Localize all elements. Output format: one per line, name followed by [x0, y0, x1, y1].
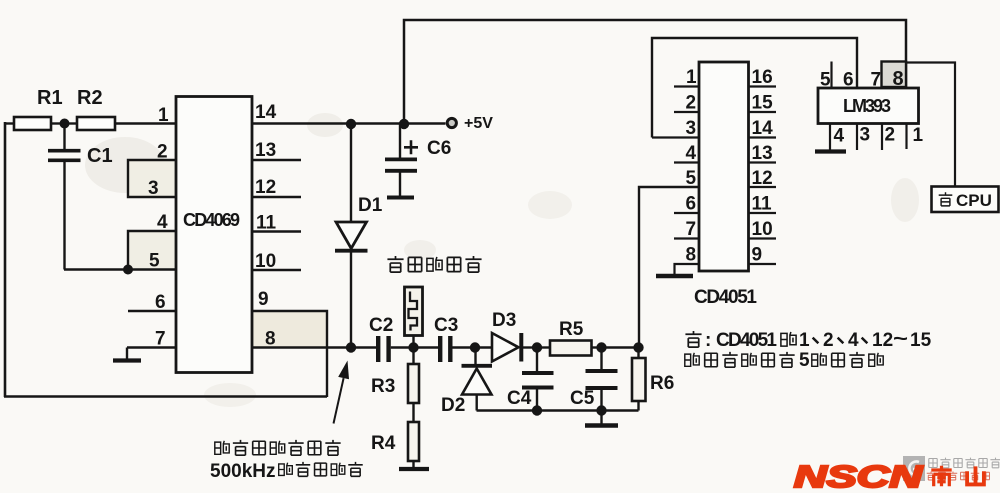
wire R1 to node	[51, 122, 64, 124]
label C6	[427, 138, 451, 159]
svg-text:2: 2	[157, 142, 168, 163]
capacitor C5	[586, 348, 618, 411]
CD4051 pin 16 label	[752, 67, 773, 88]
svg-text:C6: C6	[427, 138, 451, 159]
svg-text:2: 2	[686, 93, 697, 114]
pin 1 label	[158, 105, 169, 126]
CD4051 pin 3 label	[686, 118, 697, 139]
wire CD4051 pin5 to R6 node	[639, 187, 699, 348]
watermark red text row	[927, 472, 990, 481]
wire CD4051 pin9	[749, 263, 777, 265]
svg-text:5: 5	[799, 350, 810, 371]
diode D1	[335, 124, 368, 348]
diode D2	[462, 348, 493, 411]
label C1	[87, 145, 113, 167]
capacitor C4	[522, 348, 554, 411]
node C4/R5 junction	[532, 342, 542, 352]
CD4051 pin 7 label	[686, 219, 697, 240]
CD4051 pin 14 label	[752, 118, 774, 139]
node C5 bottom	[596, 405, 606, 415]
svg-text:1: 1	[799, 330, 810, 351]
op-amp U1 CD4069 IC body	[176, 97, 252, 373]
CD4051 pin 9 label	[752, 245, 763, 266]
svg-text:3: 3	[860, 125, 871, 146]
wire CD4051 pin16	[749, 85, 777, 87]
svg-text:LM393: LM393	[843, 96, 891, 116]
wire pin13	[252, 159, 301, 161]
svg-text:R6: R6	[650, 373, 674, 394]
svg-text:7: 7	[686, 219, 697, 240]
capacitor C1	[48, 124, 81, 270]
svg-text:5: 5	[820, 70, 831, 91]
touch key (spring contact)	[405, 287, 423, 348]
pin 8 label	[265, 329, 276, 350]
shaded region pins 8-9	[253, 312, 326, 347]
svg-text:3: 3	[686, 118, 697, 139]
label R2	[77, 87, 103, 109]
pin 12 label	[255, 177, 276, 198]
label CD4051	[694, 287, 757, 308]
terminal +5V	[447, 118, 456, 127]
wire pin7	[127, 346, 176, 348]
IC CD4051 body	[699, 62, 749, 271]
label R1	[37, 87, 63, 109]
LM393 pin 8 label	[893, 68, 904, 90]
resistor R6	[632, 348, 646, 411]
wire pin11	[252, 230, 301, 232]
svg-text:12: 12	[872, 330, 893, 351]
note line 2: outer circuit same as pin 5	[685, 350, 883, 371]
svg-text:C2: C2	[369, 315, 393, 336]
svg-text:D3: D3	[492, 310, 516, 331]
svg-text:4: 4	[848, 330, 859, 351]
node C5 top junction	[596, 342, 606, 352]
svg-text:8: 8	[686, 245, 697, 266]
svg-text:10: 10	[255, 251, 276, 272]
node C4 bottom	[532, 405, 542, 415]
node touch key junction	[408, 342, 418, 352]
node D1 top junction	[346, 119, 356, 129]
node pin8 line D1 junction	[346, 342, 356, 352]
CD4051 pin 10 label	[752, 219, 773, 240]
LM393 pin2 tick	[881, 124, 883, 151]
ground pin7	[113, 348, 141, 361]
svg-text:500kHz: 500kHz	[210, 461, 276, 482]
node pin5 junction	[123, 265, 133, 275]
LM393 pin1 tick	[905, 124, 907, 150]
pin 11 label	[256, 213, 277, 234]
wire C3 to D3	[453, 346, 493, 348]
CD4051 pin 5 label	[686, 168, 697, 189]
svg-text:15: 15	[752, 93, 774, 114]
wire bottom filter rail	[477, 409, 639, 411]
pin 9 label	[258, 289, 269, 310]
label D2	[441, 395, 465, 416]
svg-text:12: 12	[255, 177, 276, 198]
resistor R4	[408, 422, 419, 468]
svg-text:10: 10	[752, 219, 773, 240]
svg-text:CD4069: CD4069	[183, 210, 240, 230]
wire CD4051 pin3	[652, 136, 699, 138]
label C4	[507, 388, 532, 409]
diode D3	[492, 333, 537, 362]
CD4051 pin 11 label	[752, 194, 773, 215]
wire left feedback rail	[4, 122, 7, 397]
label spring touch key (Chinese)	[387, 256, 481, 272]
wire R2 to pin1	[115, 122, 176, 124]
label R5	[559, 319, 584, 340]
svg-text:R5: R5	[559, 319, 584, 340]
svg-text:8: 8	[265, 329, 276, 350]
svg-text:9: 9	[258, 289, 269, 310]
pin 6 label	[155, 292, 166, 313]
svg-text:11: 11	[752, 194, 773, 215]
CD4051 pin 8 label	[686, 245, 697, 266]
label R6	[650, 373, 674, 394]
wire C5 to R6 node	[602, 346, 639, 348]
watermark logo square	[903, 456, 925, 481]
svg-text:1: 1	[158, 105, 169, 126]
svg-text:6: 6	[843, 70, 854, 91]
LM393 pin5/6 tick	[830, 62, 832, 89]
svg-text:15: 15	[910, 330, 932, 351]
label C3	[434, 315, 458, 336]
svg-text:~: ~	[893, 328, 908, 350]
wire CD4051 pin6	[674, 212, 699, 214]
label to CPU	[939, 191, 992, 210]
LM393 pin 5 label	[820, 70, 831, 91]
svg-text:5: 5	[686, 168, 697, 189]
svg-text:4: 4	[157, 212, 168, 233]
wire pin8 output	[252, 346, 351, 348]
annotation line 2: 500kHz square wave signal	[210, 461, 363, 482]
svg-text:NSCN: NSCN	[794, 459, 923, 493]
svg-text:CPU: CPU	[956, 191, 992, 210]
wire LM393 pin4 to ground	[829, 124, 831, 151]
wire pin6	[128, 310, 176, 312]
node +5V/C6 junction	[399, 119, 409, 129]
svg-text:C5: C5	[570, 388, 595, 409]
pin 7 label	[155, 329, 166, 350]
svg-text:5: 5	[149, 251, 160, 272]
wire CD4051 pin3 loop to LM393	[652, 38, 857, 138]
svg-text:1: 1	[686, 67, 697, 88]
wire C1 to pin5 node	[64, 268, 128, 270]
svg-text:12: 12	[752, 168, 773, 189]
wire CD4051 pin2	[674, 111, 699, 113]
svg-text:7: 7	[155, 329, 166, 350]
ground LM393 pin4	[815, 149, 846, 153]
ground R4	[399, 467, 429, 471]
CD4051 pin 13 label	[752, 143, 773, 164]
svg-text:R1: R1	[37, 87, 63, 109]
ground C5	[585, 411, 618, 426]
svg-text:8: 8	[893, 68, 904, 90]
wire bottom feedback rail	[4, 395, 327, 398]
svg-text:2: 2	[885, 125, 896, 146]
label +5V	[464, 115, 493, 132]
CD4051 pin 2 label	[686, 93, 697, 114]
svg-text:1: 1	[913, 125, 924, 146]
arrow callout to pin8 node	[334, 361, 350, 424]
resistor R5	[537, 341, 602, 356]
wire CD4051 pin13	[749, 161, 777, 163]
label D3	[492, 310, 516, 331]
wire pin9 to bottom rail	[252, 311, 327, 397]
pin 14 label	[255, 102, 277, 123]
svg-text:14: 14	[752, 118, 774, 139]
CD4051 pin 1 label	[686, 67, 697, 88]
svg-text:CD4051: CD4051	[716, 330, 777, 351]
LM393 pin 7 label	[871, 70, 882, 91]
svg-text:R4: R4	[371, 433, 396, 454]
pin 13 label	[255, 140, 276, 161]
CD4051 pin 15 label	[752, 93, 774, 114]
wire top supply rail	[404, 20, 906, 124]
svg-text:2: 2	[823, 330, 834, 351]
wire LM393 pin8 to CPU	[906, 63, 955, 187]
svg-text:13: 13	[255, 140, 276, 161]
wire pin14 to +5V	[252, 122, 446, 124]
svg-text::: :	[705, 330, 711, 351]
svg-text:9: 9	[752, 245, 763, 266]
note line 1: CD4051 pins 1,2,4,12-15	[685, 328, 931, 351]
wire CD4051 pin12	[749, 186, 777, 188]
ground CD4051 pin8	[656, 274, 693, 278]
resistor R3	[408, 348, 419, 423]
label CD4069	[183, 210, 240, 230]
svg-text:C1: C1	[87, 145, 113, 167]
LM393 pin 1 label	[913, 125, 924, 146]
svg-text:14: 14	[255, 102, 277, 123]
svg-text:6: 6	[686, 194, 697, 215]
svg-text:7: 7	[871, 70, 882, 91]
LM393 pin 3 label	[860, 125, 871, 146]
wire CD4051 pin7	[674, 237, 699, 239]
wire node to R2	[64, 122, 77, 124]
label R4	[371, 433, 396, 454]
svg-text:13: 13	[752, 143, 773, 164]
logo Nanshan (Chinese)	[931, 466, 984, 486]
resistor R2	[77, 117, 115, 130]
svg-text:CD4051: CD4051	[694, 287, 757, 308]
wire pin12	[252, 196, 301, 198]
comparator U2 LM393 body	[818, 88, 919, 124]
label C5	[570, 388, 595, 409]
wire CD4051 pin8 to ground	[675, 264, 700, 274]
wire node to C2	[351, 346, 376, 348]
wire CD4051 pin11	[749, 212, 777, 214]
wire CD4051 pin4	[674, 161, 699, 163]
pin 4 label	[157, 212, 168, 233]
node to-CPU box	[932, 187, 999, 213]
label D1	[358, 195, 383, 216]
svg-text:D2: D2	[441, 395, 465, 416]
wire pins 4-5 loop	[128, 231, 176, 270]
wire R1 left lead	[4, 122, 14, 124]
svg-text:4: 4	[834, 126, 845, 147]
logo NSCN	[794, 459, 923, 493]
LM393 pin3 tick	[856, 124, 858, 151]
label LM393	[843, 96, 891, 116]
pin 10 label	[255, 251, 276, 272]
resistor R1	[14, 117, 51, 130]
CD4051 pin 6 label	[686, 194, 697, 215]
svg-text:C3: C3	[434, 315, 458, 336]
svg-text:+5V: +5V	[464, 115, 493, 132]
wire CD4051 pin14	[749, 136, 777, 138]
pin 3 label	[148, 178, 159, 199]
capacitor C2	[378, 336, 388, 362]
CD4051 pin 12 label	[752, 168, 773, 189]
LM393 pin 2 label	[885, 125, 896, 146]
wire pins 2-3 loop	[128, 160, 176, 197]
label C2	[369, 315, 393, 336]
wire C2 to C3	[391, 346, 438, 348]
capacitor C6	[385, 124, 418, 198]
svg-text:C4: C4	[507, 388, 532, 409]
LM393 pin 4 label	[834, 126, 845, 147]
capacitor C3	[440, 336, 450, 362]
label R3	[371, 376, 395, 397]
svg-text:R2: R2	[77, 87, 103, 109]
pin 2 label	[157, 142, 168, 163]
svg-text:D1: D1	[358, 195, 383, 216]
watermark text row	[929, 458, 1000, 468]
svg-text:4: 4	[686, 143, 697, 164]
svg-text:3: 3	[148, 178, 159, 199]
wire CD4051 pin10	[749, 237, 777, 239]
node D2/D3 left junction	[470, 342, 480, 352]
LM393 pin 6 label	[843, 70, 854, 91]
wire pin10	[252, 269, 301, 271]
node R1/R2/C1 junction	[60, 119, 70, 129]
node R6 top junction	[633, 342, 643, 352]
svg-text:R3: R3	[371, 376, 395, 397]
svg-text:11: 11	[256, 213, 277, 234]
CD4051 pin 4 label	[686, 143, 697, 164]
wire CD4051 pin1	[674, 85, 699, 87]
annotation line 1: this point has frequency above	[215, 440, 341, 455]
pin 5 label	[149, 251, 160, 272]
LM393 pin 8 highlight box	[882, 62, 907, 88]
svg-text:6: 6	[155, 292, 166, 313]
wire CD4051 pin15	[749, 111, 777, 113]
svg-text:16: 16	[752, 67, 773, 88]
